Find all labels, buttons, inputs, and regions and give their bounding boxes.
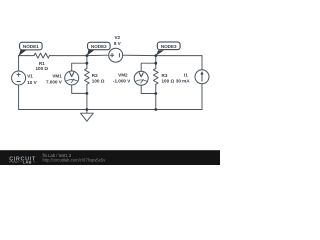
junction VM1 bottom tap (86, 92, 89, 95)
svg-text:100 Ω: 100 Ω (92, 78, 105, 83)
svg-text:VM1: VM1 (52, 74, 62, 79)
junction ground / bottom rail (86, 108, 89, 111)
current source I1 (195, 70, 209, 84)
resistor R1 (34, 53, 50, 58)
node B label NODE2 (87, 50, 95, 56)
wire NODE2 to V2 (87, 54, 109, 56)
wire NODE2 branch upper (86, 56, 88, 69)
svg-text:7.000 V: 7.000 V (46, 80, 63, 85)
wire R1 to NODE2 (50, 55, 87, 57)
footer bar (0, 150, 220, 165)
resistor R3 (153, 69, 158, 85)
svg-text:100 Ω: 100 Ω (35, 66, 48, 71)
wire V2 to NODE3 (123, 54, 156, 56)
wire right rail lower (201, 84, 203, 110)
wire left rail lower (18, 85, 20, 110)
CircuitLab logo LAB box (21, 161, 23, 163)
svg-text:NODE1: NODE1 (23, 44, 39, 49)
wire VM2 top loop (141, 63, 156, 71)
junction VM2 top tap (154, 62, 157, 65)
svg-text:-1.000 V: -1.000 V (113, 79, 131, 84)
svg-text:LAB: LAB (23, 159, 32, 164)
node A label NODE1 (19, 50, 27, 56)
voltage source V1 (12, 71, 26, 85)
resistor R2 (85, 69, 90, 85)
svg-text:100 Ω: 100 Ω (162, 78, 175, 83)
voltmeter VM2 (134, 71, 148, 85)
wire left rail upper (18, 56, 20, 71)
wire NODE3 branch upper (155, 56, 157, 69)
svg-text:8 V: 8 V (114, 41, 122, 46)
wire right rail upper (201, 56, 203, 70)
svg-text:V2: V2 (114, 35, 120, 40)
wire NODE3 to right corner (156, 55, 202, 57)
voltage source V2 (109, 48, 123, 62)
svg-text:VM2: VM2 (118, 73, 128, 78)
voltmeter VM1 (65, 71, 79, 85)
wire VM1 bottom loop (72, 85, 87, 93)
wire VM1 top loop (72, 63, 87, 71)
CircuitLab logo resistor zigzag (9, 161, 19, 163)
svg-text:NODE3: NODE3 (161, 44, 177, 49)
svg-text:V1: V1 (27, 74, 33, 79)
junction NODE3 top rail (154, 54, 157, 57)
svg-text:30 mA: 30 mA (176, 78, 190, 83)
wire R2 to bottom rail (86, 84, 88, 109)
svg-text:R2: R2 (92, 73, 98, 78)
wire R3 to bottom rail (155, 84, 157, 109)
svg-text:NODE2: NODE2 (91, 44, 107, 49)
ground (81, 110, 94, 122)
junction NODE2 top rail (86, 54, 89, 57)
junction VM2 bottom tap (154, 92, 157, 95)
svg-text:I1: I1 (184, 73, 188, 78)
node C label NODE3 (156, 50, 164, 55)
wire top rail left segment (19, 55, 34, 57)
junction R3 branch / bottom rail (154, 108, 157, 111)
junction VM1 top tap (86, 62, 89, 65)
svg-text:10 V: 10 V (27, 80, 37, 85)
wire bottom rail (19, 109, 202, 111)
svg-text:R3: R3 (162, 73, 168, 78)
svg-text:http://circuitlab.com/c/67fxqw: http://circuitlab.com/c/67fxqw5e5v (43, 158, 107, 163)
wire VM2 bottom loop (141, 85, 156, 93)
